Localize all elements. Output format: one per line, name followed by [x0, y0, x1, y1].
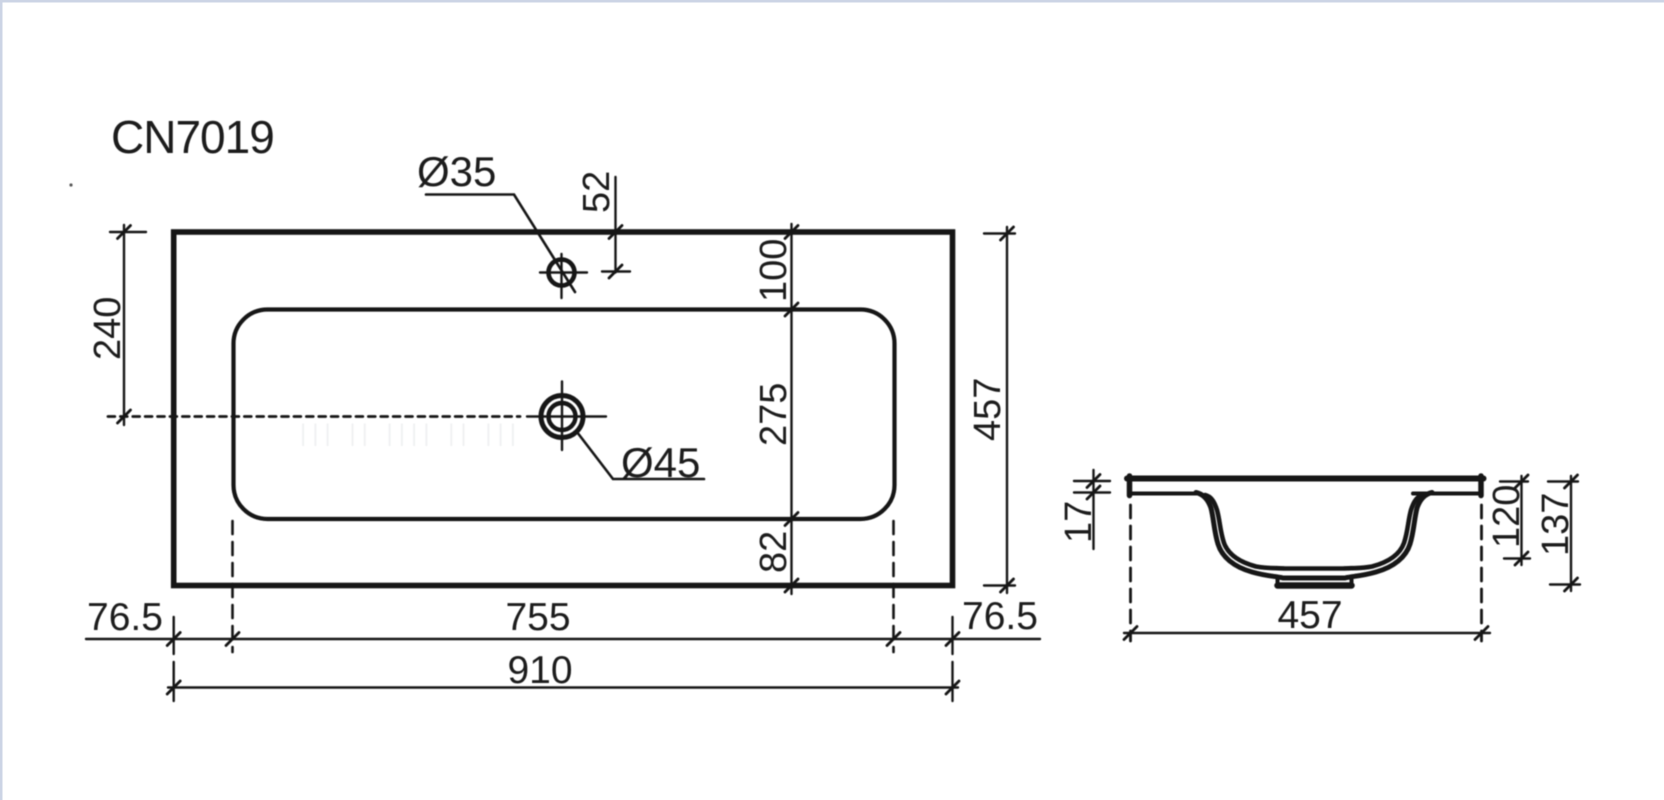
- dimension 240 top stub: [110, 231, 146, 233]
- leader line O45: [579, 434, 705, 479]
- plan 457 tick top: [1001, 227, 1014, 240]
- stack tick at basin top: [785, 303, 798, 316]
- extension line outer right: [951, 617, 953, 654]
- tick 755 outer-right: [946, 633, 959, 646]
- svg-text:17: 17: [1058, 501, 1100, 543]
- section 457 tick left: [1124, 627, 1137, 640]
- svg-text:52: 52: [576, 171, 618, 213]
- svg-text:76.5: 76.5: [87, 596, 163, 639]
- rim lower line right: [1413, 492, 1481, 496]
- section dashed ext left: [1129, 505, 1132, 641]
- tick 910 right: [946, 681, 959, 694]
- dashed extension left (basin left edge): [231, 521, 234, 652]
- 17 stub top: [1074, 480, 1110, 482]
- svg-text:100: 100: [753, 239, 795, 302]
- stack tick at basin bottom: [785, 513, 798, 526]
- drain bar right riser: [1350, 577, 1354, 586]
- drain crosshair horizontal: [527, 415, 606, 417]
- dimension 17 line: [1092, 470, 1094, 549]
- 120 stub bottom: [1504, 557, 1530, 559]
- tick 755 basin-left: [226, 633, 239, 646]
- drain bar left riser: [1276, 577, 1280, 586]
- dimension 755/76.5 line: [86, 638, 1040, 640]
- plan dimension 457 line: [1006, 227, 1008, 593]
- top blue frame edge: [0, 0, 1664, 3]
- 17 tick top: [1087, 475, 1100, 488]
- faucet hole circle: [549, 260, 575, 286]
- svg-text:||| || |||| || |||: ||| || |||| || |||: [300, 420, 522, 447]
- 137 tick top: [1565, 475, 1578, 488]
- plan 457 tick bottom: [1001, 579, 1014, 592]
- dimension 52 tick top: [609, 226, 622, 239]
- centerline dashed through drain: [108, 415, 520, 418]
- svg-text:755: 755: [505, 596, 570, 639]
- stray speck: [69, 183, 72, 186]
- 120 tick bottom: [1515, 552, 1528, 565]
- 910 ext right: [951, 662, 953, 701]
- svg-text:910: 910: [507, 649, 572, 692]
- dimension 120 line: [1520, 476, 1522, 565]
- drain hole inner circle: [549, 403, 576, 430]
- 137 stub bottom: [1550, 583, 1580, 585]
- dashed extension right (basin right edge): [892, 521, 895, 652]
- drain hole outer circle: [541, 396, 583, 438]
- dimension 52 line: [614, 177, 616, 273]
- svg-text:120: 120: [1486, 485, 1528, 548]
- svg-text:137: 137: [1535, 493, 1577, 556]
- inner basin rounded rect: [234, 310, 895, 520]
- rim end cap right: [1478, 476, 1484, 496]
- 17 stub bottom: [1074, 491, 1110, 493]
- tick 755 outer-left: [167, 633, 180, 646]
- tick 755 basin-right: [887, 633, 900, 646]
- plan 457 bottom stub: [984, 584, 1015, 586]
- dimension 137 line: [1570, 476, 1572, 591]
- drain bar: [1278, 582, 1352, 589]
- 120 tick top: [1515, 475, 1528, 488]
- 910 ext left: [172, 662, 174, 701]
- dimension 52 tick bottom: [609, 265, 622, 278]
- svg-text:Ø45: Ø45: [621, 439, 700, 486]
- svg-text:82: 82: [753, 531, 795, 573]
- 137 tick bottom: [1565, 578, 1578, 591]
- section dimension 457 line: [1124, 632, 1490, 634]
- svg-text:275: 275: [753, 383, 795, 446]
- 120 stub top: [1500, 480, 1528, 482]
- bowl inner wall: [1205, 495, 1423, 569]
- outer rect (sink top view): [174, 232, 953, 586]
- dimension 52 bottom stub: [602, 270, 630, 272]
- 137 stub top: [1548, 480, 1578, 482]
- drain crosshair vertical: [561, 382, 563, 451]
- svg-text:457: 457: [967, 378, 1009, 441]
- dimension 240 tick bottom: [118, 410, 131, 423]
- 17 tick bottom: [1087, 486, 1100, 499]
- stack tick at outer top: [785, 226, 798, 239]
- right dim stack line (100/275/82): [790, 224, 792, 594]
- section 457 tick right: [1475, 627, 1488, 640]
- dimension 240 tick top: [118, 226, 131, 239]
- svg-text:CN7019: CN7019: [111, 111, 274, 163]
- dimension 240 line: [123, 225, 125, 425]
- svg-text:76.5: 76.5: [962, 595, 1038, 638]
- extension line outer left: [172, 617, 174, 654]
- left blue frame edge: [0, 0, 3, 800]
- rim lower line left: [1130, 492, 1198, 496]
- rim top bar: [1127, 476, 1484, 482]
- faucet hole crosshair horizontal: [540, 271, 587, 273]
- rim end cap left: [1127, 476, 1133, 496]
- tick 910 left: [167, 681, 180, 694]
- bowl outer wall: [1196, 493, 1432, 579]
- stack tick at outer bottom: [785, 579, 798, 592]
- leader line O35: [426, 195, 575, 293]
- section dashed ext right: [1480, 505, 1483, 641]
- svg-text:457: 457: [1277, 594, 1342, 637]
- svg-text:Ø35: Ø35: [417, 148, 496, 195]
- plan 457 top stub: [984, 232, 1015, 234]
- dimension 910 line: [168, 686, 958, 688]
- faucet hole crosshair vertical: [560, 254, 562, 298]
- svg-text:240: 240: [87, 297, 129, 360]
